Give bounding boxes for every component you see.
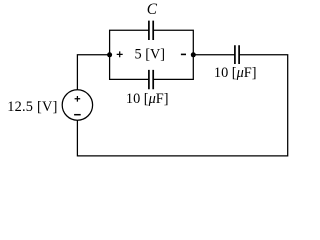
svg-text:10 [μF]: 10 [μF] [214,65,257,81]
svg-text:12.5 [V]: 12.5 [V] [7,99,57,115]
svg-text:10 [μF]: 10 [μF] [126,91,169,107]
svg-text:C: C [147,1,158,18]
svg-text:5 [V]: 5 [V] [135,47,166,63]
